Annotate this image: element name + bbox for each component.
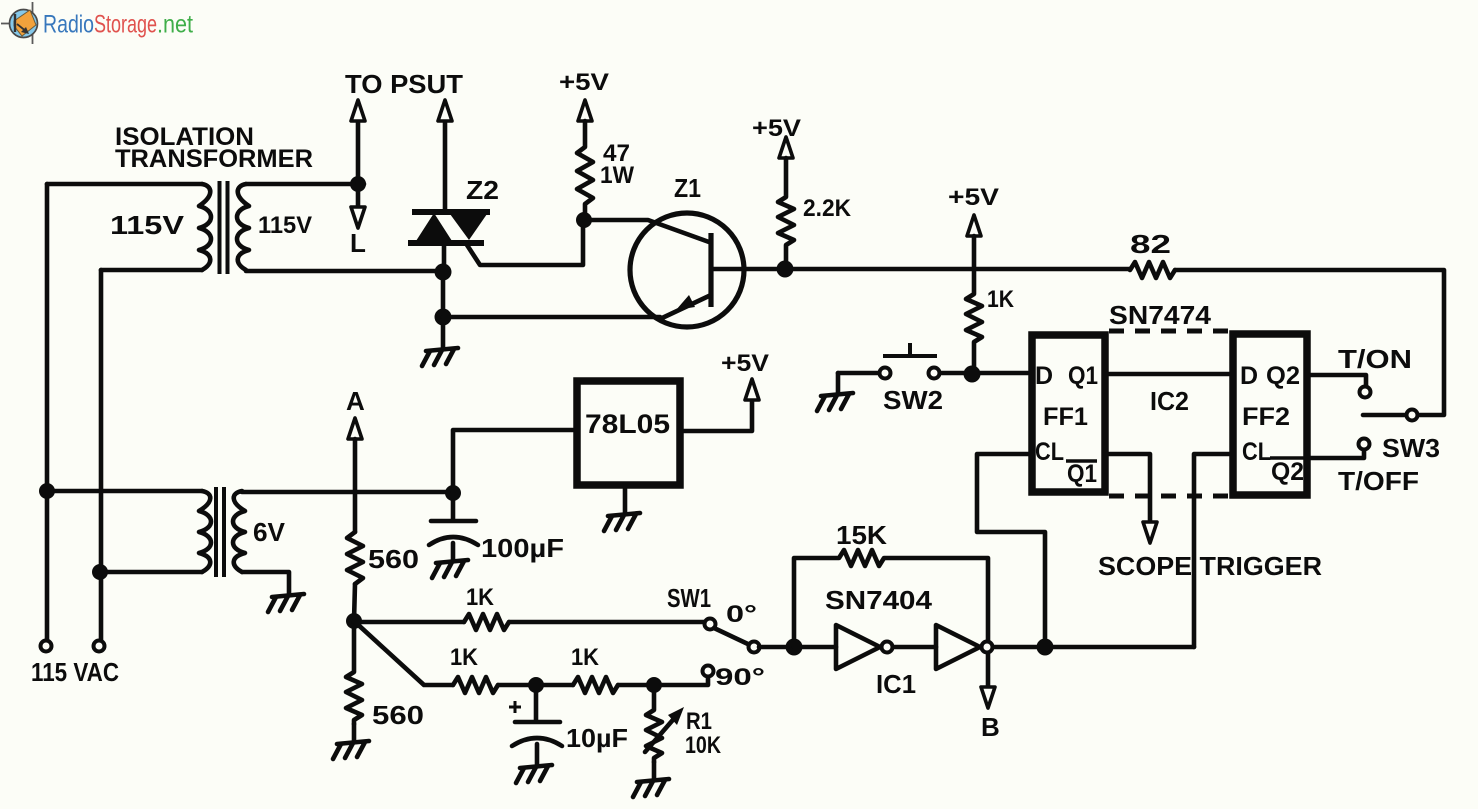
resistor 47 1W bbox=[577, 121, 593, 220]
logo text RadioStorage.net bbox=[43, 11, 193, 39]
svg-text:IC2: IC2 bbox=[1150, 386, 1189, 416]
resistor 1K pullup bbox=[966, 236, 982, 374]
svg-text:FF2: FF2 bbox=[1242, 403, 1290, 431]
svg-text:SCOPE TRIGGER: SCOPE TRIGGER bbox=[1098, 551, 1322, 581]
terminal SW1 90deg bbox=[703, 666, 714, 677]
transistor Z1 base bar bbox=[708, 233, 713, 307]
svg-text:SW1: SW1 bbox=[667, 583, 711, 613]
terminal 115VAC left bbox=[41, 641, 52, 652]
arrow scope trigger down bbox=[1143, 522, 1157, 543]
svg-text:IC1: IC1 bbox=[876, 669, 916, 699]
transformer T1 core bbox=[220, 181, 228, 274]
arrow +5V regulator bbox=[745, 379, 759, 400]
wire SW1 common to IC1 bbox=[759, 645, 794, 650]
svg-text:CL: CL bbox=[1242, 438, 1271, 466]
node A arrow bbox=[348, 418, 362, 439]
wire TO PSUT stem bbox=[356, 121, 361, 184]
arrow B down bbox=[981, 687, 995, 708]
svg-text:+5V: +5V bbox=[752, 115, 801, 142]
arrow +5V 2.2K bbox=[779, 137, 793, 158]
regulator 78L05 box bbox=[577, 381, 680, 485]
svg-text:FF1: FF1 bbox=[1043, 403, 1088, 431]
wire row90 right bbox=[618, 677, 708, 685]
node IC1 input junction bbox=[786, 639, 803, 656]
wire triac to bus bbox=[442, 243, 447, 272]
transformer T2 secondary top wire bbox=[242, 490, 453, 495]
wire base to Z1 bbox=[584, 220, 709, 242]
svg-text:1W: 1W bbox=[600, 162, 634, 189]
svg-text:560: 560 bbox=[372, 700, 424, 730]
logo circle bbox=[10, 10, 38, 38]
capacitor 10uF plus sign bbox=[509, 701, 521, 713]
ground below 560 lower bbox=[333, 724, 369, 759]
arrow TO PSUT up bbox=[351, 100, 365, 121]
dashed SN7474 top bbox=[1109, 329, 1229, 334]
dashed SN7474 bottom bbox=[1109, 494, 1229, 499]
wire SW2 to FF1 D bbox=[940, 371, 1028, 376]
arrow Z2 top bbox=[438, 100, 452, 121]
svg-text:6V: 6V bbox=[253, 517, 286, 547]
svg-text:Radio: Radio bbox=[43, 11, 94, 39]
svg-text:1K: 1K bbox=[987, 286, 1015, 313]
svg-text:Q2: Q2 bbox=[1271, 458, 1304, 486]
svg-text:SW3: SW3 bbox=[1382, 433, 1440, 463]
transformer T2 core bbox=[216, 487, 224, 577]
svg-text:+5V: +5V bbox=[721, 350, 769, 377]
svg-text:1K: 1K bbox=[466, 584, 495, 611]
terminal T/ON bbox=[1360, 387, 1371, 398]
svg-text:+5V: +5V bbox=[559, 69, 609, 96]
resistor 1K row90 second bbox=[573, 677, 618, 693]
svg-text:Q1: Q1 bbox=[1067, 460, 1097, 488]
svg-text:.net: .net bbox=[157, 11, 193, 39]
wire emitter horizontal bbox=[443, 315, 660, 320]
wire FF1 CL bbox=[977, 454, 1045, 647]
svg-text:SN7404: SN7404 bbox=[825, 585, 933, 615]
svg-text:T/OFF: T/OFF bbox=[1338, 466, 1419, 496]
capacitor 10uF bbox=[534, 685, 539, 721]
transformer T1 secondary top wire bbox=[246, 182, 364, 187]
transformer T2 secondary bottom wire bbox=[242, 572, 289, 594]
node junction T1/T2 primary bbox=[39, 483, 55, 499]
svg-text:1K: 1K bbox=[571, 644, 600, 671]
svg-text:10K: 10K bbox=[685, 732, 722, 759]
transistor Z1 collector bbox=[711, 267, 785, 272]
wire FF2 CL bbox=[1194, 454, 1233, 647]
wire B stem bbox=[986, 653, 991, 688]
node 47/gate junction bbox=[576, 212, 592, 228]
svg-text:2.2K: 2.2K bbox=[803, 195, 852, 222]
resistor 82 bbox=[1130, 262, 1175, 278]
wire 560 to divider node bbox=[354, 584, 355, 621]
wire L stem bbox=[356, 184, 361, 206]
svg-text:D: D bbox=[1240, 362, 1258, 390]
transformer T1 left vertical wire bbox=[45, 184, 50, 641]
svg-text:SW2: SW2 bbox=[883, 385, 943, 415]
wire 78L05 input bbox=[453, 430, 573, 493]
SW1 arm bbox=[714, 628, 750, 645]
svg-text:Z2: Z2 bbox=[466, 175, 499, 205]
resistor 1K row0 bbox=[464, 614, 509, 630]
wire IC1 output bbox=[993, 645, 1194, 650]
ground below 10uF bbox=[516, 765, 552, 783]
transformer T1 secondary bottom wire to triac bbox=[246, 269, 443, 274]
wire SW2 left bbox=[838, 371, 879, 376]
svg-text:15K: 15K bbox=[836, 520, 887, 550]
transistor Z1 circle bbox=[630, 213, 744, 327]
wire 90-deg diagonal bbox=[354, 621, 453, 685]
ground below R1 bbox=[633, 762, 669, 797]
terminal T/OFF bbox=[1359, 439, 1370, 450]
svg-text:115 VAC: 115 VAC bbox=[31, 657, 119, 687]
transformer T1 primary winding bbox=[199, 184, 211, 270]
wire 0-deg row right bbox=[509, 620, 704, 625]
svg-text:+5V: +5V bbox=[948, 184, 999, 211]
node R1 junction bbox=[646, 677, 662, 693]
transformer T1 primary bottom wire bbox=[101, 268, 202, 273]
wire Q2bar T/OFF bbox=[1307, 450, 1364, 458]
transformer T2 primary bottom wire bbox=[100, 570, 202, 575]
svg-text:TO PSUT: TO PSUT bbox=[345, 69, 463, 99]
svg-text:A: A bbox=[346, 386, 365, 416]
wire node A vertical bbox=[353, 439, 358, 532]
ground below 78L05 bbox=[604, 489, 640, 531]
node divider junction bbox=[346, 613, 362, 629]
capacitor 100uF bbox=[451, 493, 456, 519]
inverter IC1b bbox=[936, 625, 980, 669]
svg-text:82: 82 bbox=[1130, 229, 1171, 259]
inverter IC1a bbox=[836, 625, 880, 669]
R1 arrow bbox=[645, 714, 678, 752]
svg-text:D: D bbox=[1035, 362, 1053, 390]
svg-text:Storage: Storage bbox=[94, 11, 157, 39]
node emitter junction bbox=[435, 309, 452, 326]
transistor Z1 emitter arrow bbox=[676, 295, 695, 310]
svg-text:Q1: Q1 bbox=[1068, 362, 1098, 390]
triac Z2 stem top bbox=[443, 121, 448, 211]
svg-text:CL: CL bbox=[1035, 438, 1064, 466]
wire row90 mid bbox=[498, 683, 573, 688]
resistor 2.2K bbox=[778, 158, 794, 269]
flip-flop FF2 box bbox=[1233, 334, 1307, 495]
transformer T2 primary top wire bbox=[47, 489, 202, 494]
transformer T1 secondary winding bbox=[237, 184, 249, 270]
wire second 115VAC vertical bbox=[99, 270, 104, 641]
node 10uF junction bbox=[528, 677, 544, 693]
resistor 560 lower bbox=[346, 621, 362, 724]
svg-text:Q2: Q2 bbox=[1266, 362, 1300, 390]
svg-text:B: B bbox=[981, 712, 1000, 742]
svg-text:78L05: 78L05 bbox=[585, 409, 670, 439]
potentiometer R1 bbox=[646, 685, 662, 762]
svg-text:100µF: 100µF bbox=[481, 533, 564, 563]
svg-text:T/ON: T/ON bbox=[1338, 344, 1412, 374]
arrow +5V 47 bbox=[578, 100, 592, 121]
svg-text:560: 560 bbox=[368, 544, 419, 574]
terminal SW1 common bbox=[749, 642, 760, 653]
resistor 1K row90 first bbox=[453, 677, 498, 693]
svg-text:10µF: 10µF bbox=[566, 723, 628, 753]
svg-text:TRANSFORMER: TRANSFORMER bbox=[115, 145, 313, 173]
ground below 6V secondary bbox=[268, 594, 304, 612]
svg-text:0°: 0° bbox=[726, 601, 757, 628]
transformer T2 primary winding bbox=[199, 491, 211, 572]
node IC1 output junction bbox=[1037, 639, 1054, 656]
ground below triac bbox=[422, 317, 458, 366]
wire Q1 to D FF2 bbox=[1105, 372, 1233, 377]
svg-text:Z1: Z1 bbox=[674, 173, 701, 203]
arrow L down bbox=[351, 207, 365, 228]
logo transistor shape bbox=[14, 10, 36, 36]
svg-text:1K: 1K bbox=[450, 644, 479, 671]
triac Z2 gate wire bbox=[467, 221, 583, 265]
wire Q2 T/ON bbox=[1307, 375, 1366, 386]
flip-flop FF1 box bbox=[1032, 335, 1105, 492]
node junction 6V primary bottom bbox=[92, 564, 108, 580]
terminal SW3 common bbox=[1407, 410, 1418, 421]
wire main bus bbox=[785, 267, 1130, 272]
switch SW2 bbox=[880, 368, 891, 379]
svg-text:L: L bbox=[350, 228, 366, 258]
terminal SW1 0deg bbox=[705, 619, 716, 630]
wire IC1 input bbox=[794, 645, 836, 650]
node L junction bbox=[350, 176, 366, 192]
resistor 15K feedback bbox=[794, 550, 988, 647]
svg-text:115V: 115V bbox=[258, 212, 312, 239]
svg-text:115V: 115V bbox=[110, 210, 185, 240]
ground below 100uF bbox=[432, 560, 468, 578]
transistor Z1 emitter bbox=[660, 295, 711, 319]
logo crosshair bbox=[1, 2, 33, 44]
wire 78L05 output bbox=[684, 399, 752, 431]
node SW2/D junction bbox=[964, 366, 981, 383]
transformer T2 secondary winding bbox=[233, 491, 245, 572]
terminal 115VAC right bbox=[94, 641, 105, 652]
transformer T1 primary top wire bbox=[47, 182, 202, 187]
node triac bus junction bbox=[435, 264, 452, 281]
wire 0-deg row left bbox=[354, 620, 464, 625]
wire between inverters bbox=[893, 645, 936, 650]
triac Z2 bbox=[408, 212, 490, 243]
svg-text:90°: 90° bbox=[715, 664, 765, 691]
wire bus right bbox=[1175, 270, 1444, 415]
svg-text:R1: R1 bbox=[686, 708, 712, 735]
wire Q1bar scope trigger bbox=[1105, 454, 1150, 521]
svg-text:SN7474: SN7474 bbox=[1109, 300, 1212, 330]
wire triac junction down bbox=[441, 272, 446, 317]
ground SW2 bbox=[817, 373, 853, 411]
resistor 560 upper bbox=[347, 532, 363, 584]
arrow +5V 1K bbox=[967, 215, 981, 236]
node 6V/78L05 junction bbox=[445, 485, 461, 501]
node collector junction bbox=[777, 261, 794, 278]
